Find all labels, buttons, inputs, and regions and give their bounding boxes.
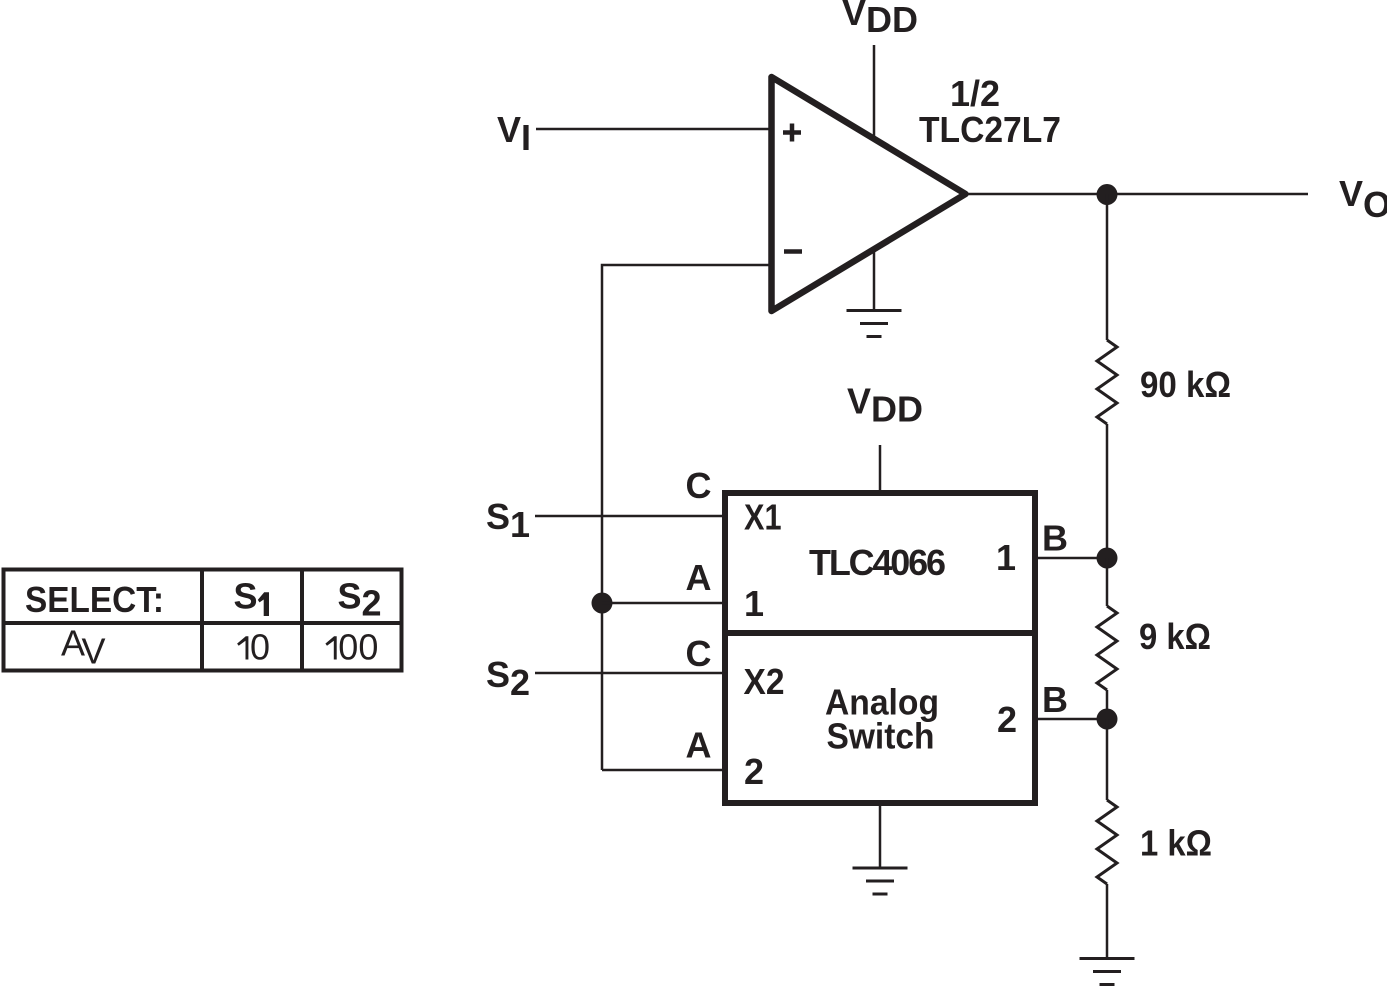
svg-text:VI: VI bbox=[497, 109, 531, 158]
table cell 100 bbox=[325, 636, 336, 659]
op-amp U1 triangle bbox=[772, 77, 966, 311]
svg-text:B: B bbox=[1042, 679, 1068, 720]
junction dot feedback node A bbox=[592, 593, 613, 614]
svg-text:9 kΩ: 9 kΩ bbox=[1139, 616, 1211, 657]
wire VDD stub (op-amp) bbox=[873, 45, 876, 138]
op-amp - input symbol bbox=[784, 249, 802, 254]
svg-text:Switch: Switch bbox=[827, 716, 935, 757]
svg-text:AV: AV bbox=[61, 623, 106, 672]
svg-text:TLC27L7: TLC27L7 bbox=[919, 109, 1061, 150]
wire R3 to ground bbox=[1106, 884, 1109, 958]
svg-text:90 kΩ: 90 kΩ bbox=[1140, 364, 1231, 405]
ground (op-amp) bbox=[847, 311, 902, 337]
wire op-amp output to VO bbox=[965, 193, 1308, 196]
svg-text:00: 00 bbox=[338, 627, 378, 668]
svg-text:SELECT:: SELECT: bbox=[25, 579, 164, 620]
svg-text:S: S bbox=[234, 576, 258, 617]
svg-text:B: B bbox=[1042, 518, 1068, 559]
wire VI input bbox=[536, 128, 771, 131]
wire VDD stub (switch) bbox=[879, 445, 882, 490]
resistor R3 1 kOhm bbox=[1097, 800, 1117, 884]
wire B1 pin to divider node bbox=[1038, 557, 1107, 560]
table cell 10 bbox=[237, 636, 248, 659]
svg-text:S2: S2 bbox=[486, 654, 530, 703]
svg-text:S1: S1 bbox=[486, 496, 530, 545]
table gain select bbox=[4, 570, 402, 671]
svg-text:C: C bbox=[686, 633, 712, 674]
svg-text:VDD: VDD bbox=[842, 0, 918, 40]
wire ground stub (switch) bbox=[879, 806, 882, 867]
switch block U2 TLC4066 body bbox=[725, 493, 1035, 803]
wire A2 pin bbox=[602, 769, 722, 772]
svg-text:TLC4066: TLC4066 bbox=[809, 542, 946, 583]
svg-text:2: 2 bbox=[997, 699, 1017, 740]
resistor R1 90 kOhm bbox=[1097, 340, 1117, 424]
svg-text:A: A bbox=[686, 557, 712, 598]
svg-text:1: 1 bbox=[996, 537, 1016, 578]
wire ground stub (op-amp) bbox=[873, 249, 876, 310]
svg-text:1: 1 bbox=[744, 583, 764, 624]
svg-text:X2: X2 bbox=[744, 661, 785, 702]
wire node B2 to R3 bbox=[1106, 719, 1109, 800]
svg-text:2: 2 bbox=[744, 751, 764, 792]
svg-text:C: C bbox=[686, 465, 712, 506]
op-amp + input symbol bbox=[783, 124, 801, 142]
wire feedback from inverting input bbox=[602, 265, 771, 770]
ground (divider bottom) bbox=[1080, 959, 1135, 985]
wire R2 to node B2 bbox=[1106, 690, 1109, 719]
svg-text:1 kΩ: 1 kΩ bbox=[1140, 823, 1212, 864]
wire B2 pin to divider node bbox=[1038, 718, 1107, 721]
resistor R2 9 kOhm bbox=[1097, 606, 1117, 690]
ground (switch) bbox=[853, 868, 908, 894]
junction dot output node bbox=[1097, 184, 1118, 205]
junction dot node B1 bbox=[1097, 548, 1118, 569]
wire S1 bbox=[535, 515, 722, 518]
svg-text:VDD: VDD bbox=[847, 381, 923, 430]
wire output node down to R1 bbox=[1106, 194, 1109, 340]
wire A1 pin bbox=[602, 602, 722, 605]
svg-text:1/2: 1/2 bbox=[950, 73, 1000, 114]
wire node B1 to R2 bbox=[1106, 558, 1109, 606]
switch block section divider bbox=[722, 630, 1038, 636]
wire R1 to node B1 bbox=[1106, 424, 1109, 558]
junction dot node B2 bbox=[1097, 709, 1118, 730]
svg-text:A: A bbox=[686, 725, 712, 766]
svg-text:0: 0 bbox=[250, 627, 270, 668]
svg-text:S2: S2 bbox=[338, 576, 382, 624]
wire S2 bbox=[535, 672, 722, 675]
svg-text:VO: VO bbox=[1339, 173, 1387, 225]
svg-text:X1: X1 bbox=[744, 497, 782, 538]
